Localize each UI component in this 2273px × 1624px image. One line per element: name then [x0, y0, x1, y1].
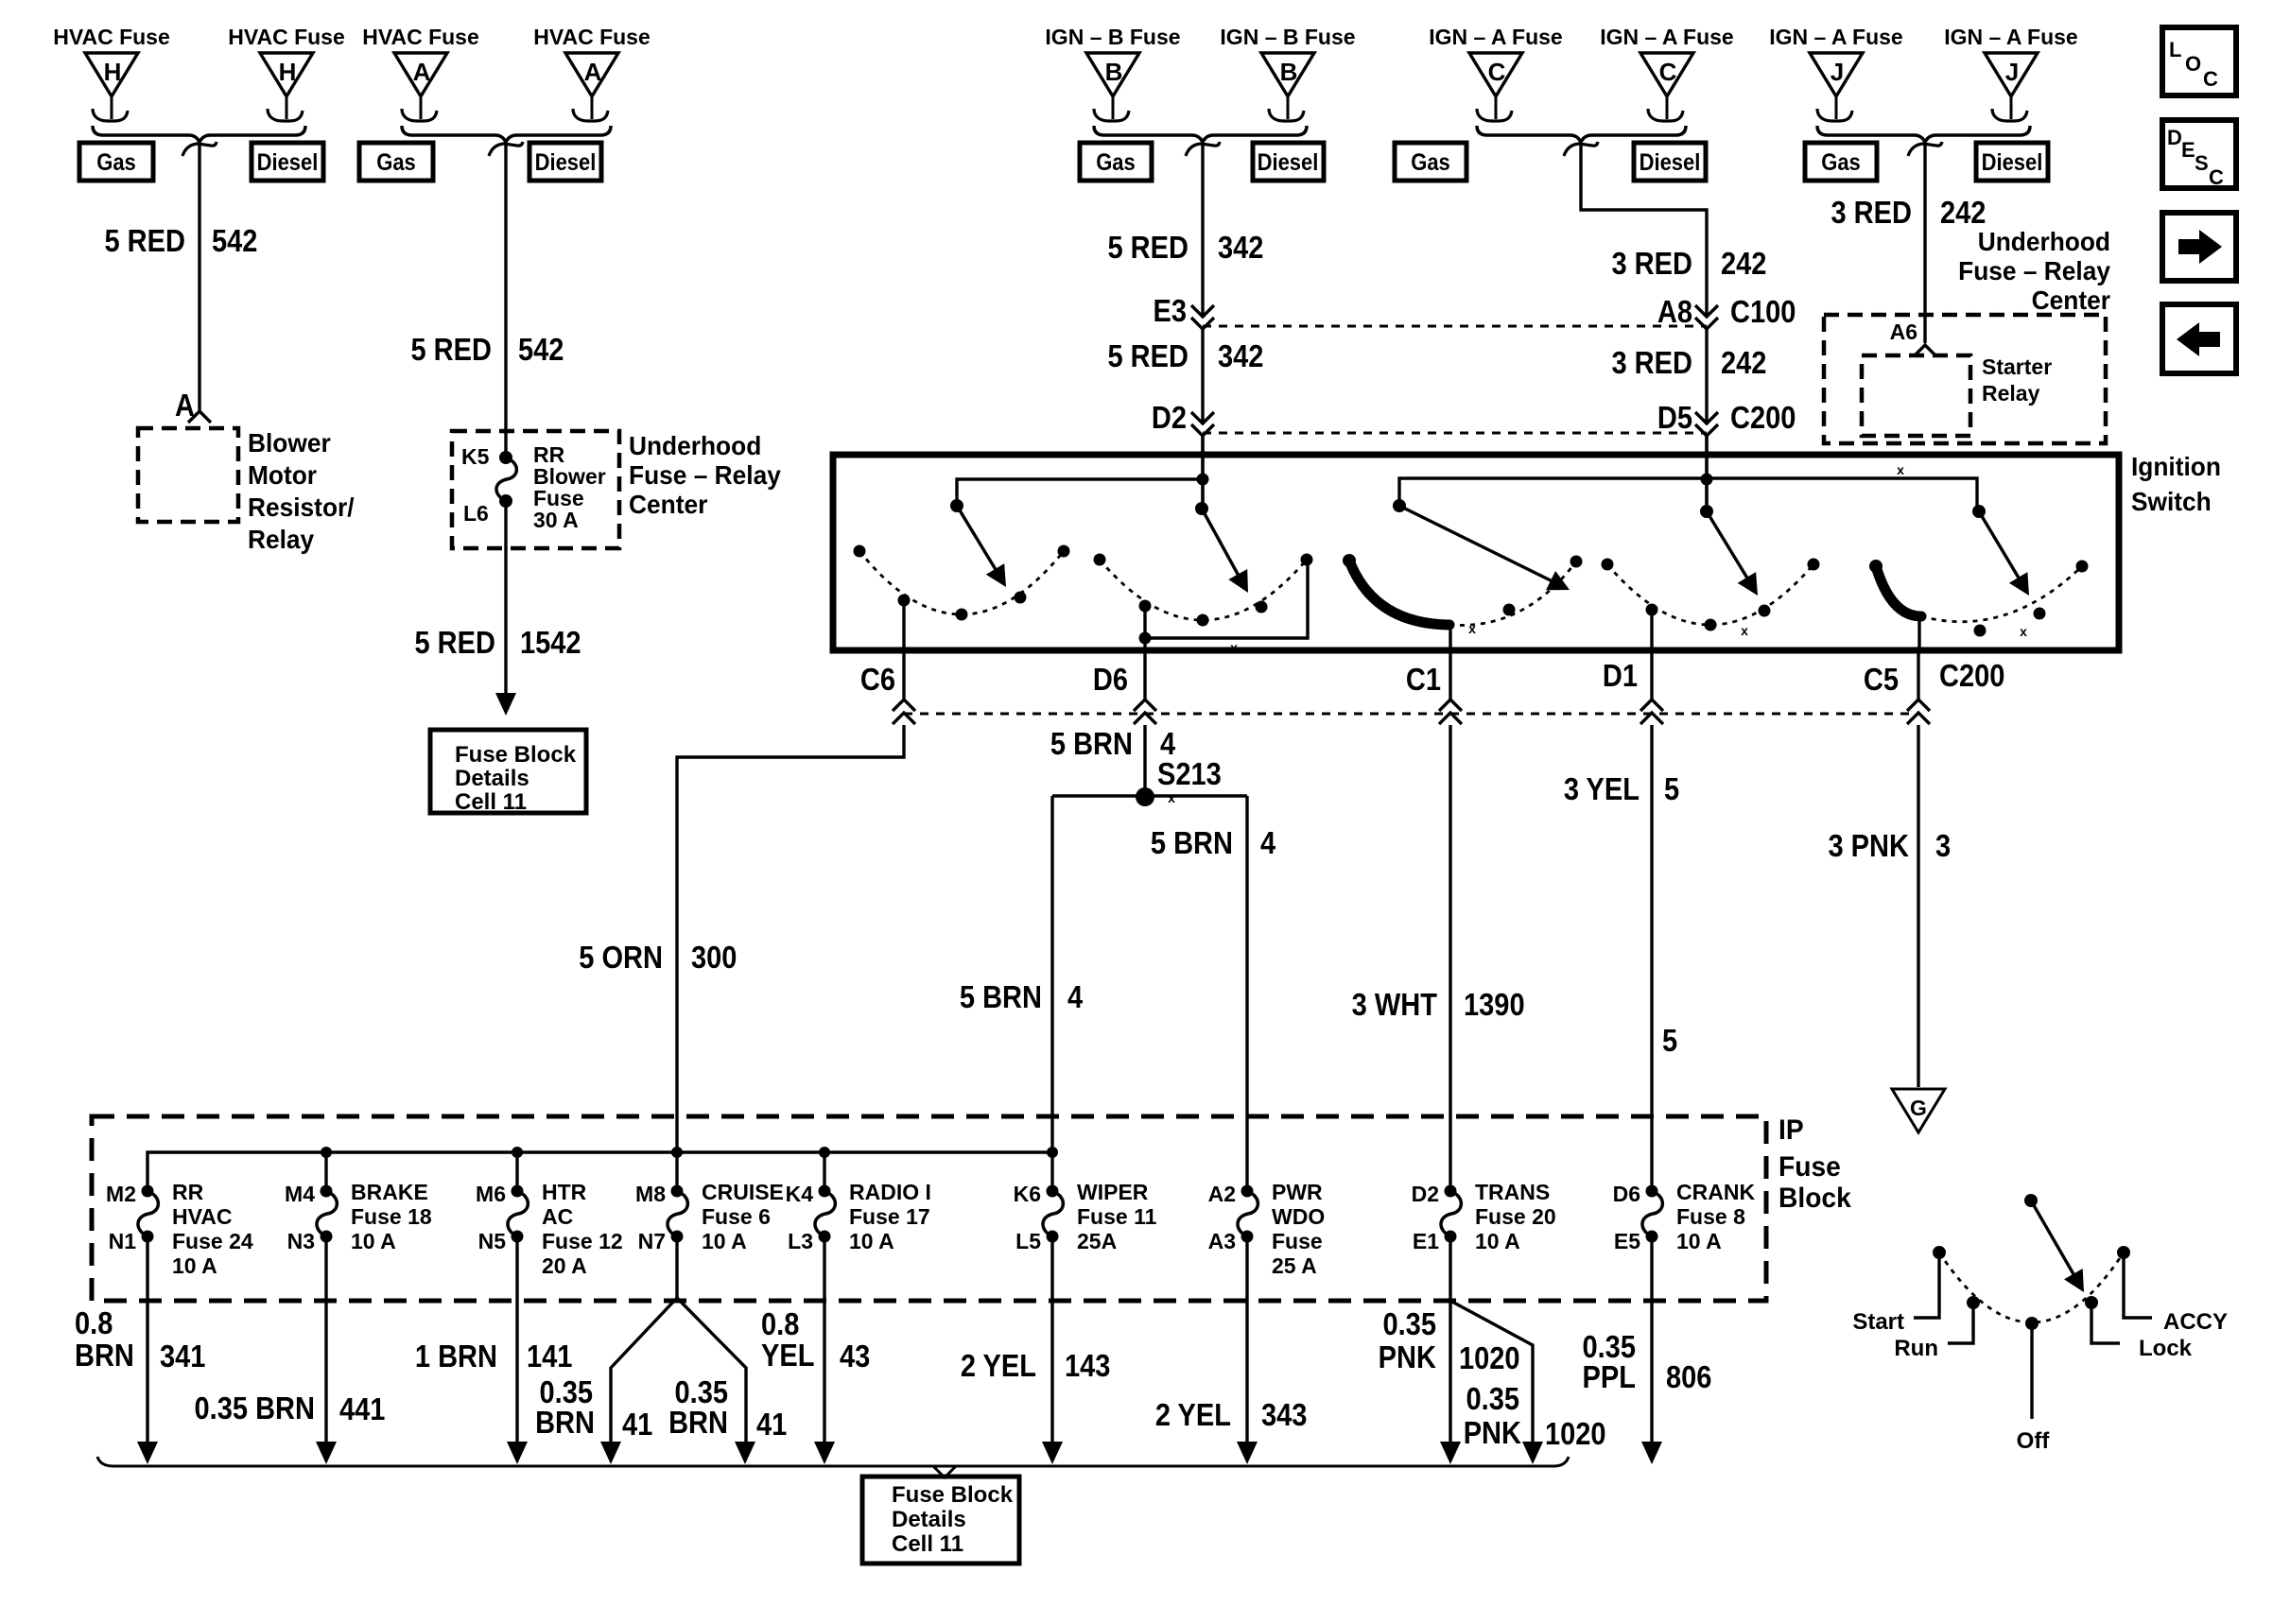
svg-text:A: A: [175, 388, 195, 423]
svg-text:Underhood: Underhood: [1978, 226, 2110, 256]
svg-text:IGN – A Fuse: IGN – A Fuse: [1600, 25, 1733, 49]
svg-text:B: B: [1280, 58, 1298, 86]
svg-text:HVAC Fuse: HVAC Fuse: [228, 25, 345, 49]
svg-text:Underhood: Underhood: [629, 430, 761, 460]
svg-text:CRANK: CRANK: [1676, 1180, 1755, 1204]
svg-text:L3: L3: [788, 1229, 813, 1253]
svg-text:L: L: [2169, 38, 2181, 61]
svg-text:Relay: Relay: [248, 524, 314, 554]
svg-text:0.35: 0.35: [1466, 1381, 1519, 1416]
svg-text:C: C: [2203, 67, 2218, 91]
svg-text:542: 542: [212, 223, 257, 258]
svg-text:242: 242: [1721, 246, 1766, 281]
svg-text:PNK: PNK: [1379, 1339, 1437, 1374]
svg-text:10 A: 10 A: [351, 1229, 396, 1253]
svg-text:RR: RR: [172, 1180, 204, 1204]
svg-text:C5: C5: [1864, 662, 1899, 697]
svg-text:x: x: [1468, 621, 1476, 636]
svg-text:N3: N3: [287, 1229, 315, 1253]
svg-text:C1: C1: [1406, 662, 1441, 697]
svg-text:Motor: Motor: [248, 459, 317, 490]
svg-text:Gas: Gas: [1096, 149, 1136, 176]
svg-text:CRUISE: CRUISE: [702, 1180, 784, 1204]
svg-text:C6: C6: [860, 662, 895, 697]
svg-text:Fuse Block: Fuse Block: [455, 742, 577, 768]
svg-text:C: C: [2209, 165, 2224, 189]
svg-text:Fuse 24: Fuse 24: [172, 1229, 253, 1253]
svg-text:K6: K6: [1014, 1182, 1041, 1206]
svg-text:20 A: 20 A: [542, 1253, 587, 1278]
svg-text:x: x: [1741, 623, 1748, 638]
svg-text:L5: L5: [1015, 1229, 1041, 1253]
svg-text:Run: Run: [1894, 1336, 1938, 1361]
svg-text:Starter: Starter: [1982, 354, 2052, 379]
svg-text:Block: Block: [1778, 1183, 1852, 1214]
svg-text:A: A: [413, 58, 431, 86]
svg-text:C: C: [1488, 58, 1506, 86]
svg-text:TRANS: TRANS: [1475, 1180, 1550, 1204]
svg-text:5 BRN: 5 BRN: [1151, 825, 1233, 860]
svg-text:D2: D2: [1152, 400, 1187, 435]
svg-text:AC: AC: [542, 1204, 573, 1229]
svg-text:10 A: 10 A: [1676, 1229, 1722, 1253]
svg-text:25A: 25A: [1077, 1229, 1117, 1253]
svg-text:0.35 BRN: 0.35 BRN: [195, 1391, 315, 1425]
svg-text:542: 542: [518, 332, 564, 367]
svg-text:C100: C100: [1730, 294, 1796, 329]
svg-text:Gas: Gas: [96, 149, 136, 176]
svg-text:J: J: [2005, 58, 2019, 86]
svg-text:x: x: [1897, 462, 1904, 477]
svg-text:E: E: [2181, 138, 2195, 162]
svg-text:0.35: 0.35: [1382, 1306, 1436, 1341]
svg-text:Resistor/: Resistor/: [248, 492, 355, 522]
svg-text:H: H: [104, 58, 122, 86]
svg-text:A3: A3: [1208, 1229, 1236, 1253]
svg-text:D6: D6: [1613, 1182, 1640, 1206]
svg-text:IGN – B Fuse: IGN – B Fuse: [1220, 25, 1355, 49]
svg-text:Lock: Lock: [2139, 1336, 2193, 1361]
svg-text:10 A: 10 A: [172, 1253, 217, 1278]
svg-text:25 A: 25 A: [1272, 1253, 1317, 1278]
svg-text:242: 242: [1721, 345, 1766, 380]
svg-text:D: D: [2167, 126, 2182, 149]
svg-text:A2: A2: [1208, 1182, 1236, 1206]
svg-text:4: 4: [1067, 979, 1084, 1014]
svg-text:Gas: Gas: [1411, 149, 1450, 176]
svg-text:HTR: HTR: [542, 1180, 587, 1204]
svg-text:Center: Center: [629, 489, 708, 519]
svg-text:Gas: Gas: [376, 149, 416, 176]
svg-text:x: x: [2020, 624, 2027, 639]
svg-text:41: 41: [756, 1407, 787, 1442]
svg-text:N1: N1: [109, 1229, 137, 1253]
svg-text:BRN: BRN: [75, 1338, 134, 1373]
svg-text:Fuse – Relay: Fuse – Relay: [1958, 255, 2110, 285]
svg-text:342: 342: [1218, 230, 1263, 265]
svg-text:5 RED: 5 RED: [1107, 338, 1189, 373]
svg-text:Fuse 17: Fuse 17: [849, 1204, 930, 1229]
svg-text:C: C: [1659, 58, 1677, 86]
svg-text:IGN – A Fuse: IGN – A Fuse: [1769, 25, 1902, 49]
svg-text:43: 43: [840, 1339, 870, 1373]
svg-text:1020: 1020: [1545, 1416, 1606, 1451]
svg-text:WIPER: WIPER: [1077, 1180, 1149, 1204]
svg-text:K5: K5: [461, 444, 490, 469]
svg-text:5 ORN: 5 ORN: [579, 940, 663, 975]
svg-text:Switch: Switch: [2131, 486, 2212, 516]
svg-text:5 RED: 5 RED: [410, 332, 492, 367]
svg-text:5 RED: 5 RED: [104, 223, 185, 258]
svg-text:M4: M4: [285, 1182, 315, 1206]
svg-text:PPL: PPL: [1583, 1359, 1636, 1394]
svg-text:0.8: 0.8: [761, 1306, 799, 1341]
svg-text:x: x: [1230, 640, 1238, 655]
svg-text:3 RED: 3 RED: [1611, 345, 1692, 380]
svg-text:S: S: [2195, 151, 2209, 175]
svg-text:5 RED: 5 RED: [414, 625, 495, 660]
svg-text:Diesel: Diesel: [257, 149, 319, 176]
svg-text:E5: E5: [1614, 1229, 1640, 1253]
svg-text:0.8: 0.8: [75, 1305, 113, 1340]
svg-text:242: 242: [1940, 195, 1986, 230]
svg-text:E1: E1: [1413, 1229, 1439, 1253]
svg-text:1390: 1390: [1464, 987, 1525, 1022]
svg-text:E3: E3: [1153, 293, 1187, 328]
svg-text:K4: K4: [786, 1182, 814, 1206]
svg-text:Fuse: Fuse: [1778, 1151, 1841, 1183]
svg-text:HVAC Fuse: HVAC Fuse: [533, 25, 651, 49]
svg-text:Fuse 8: Fuse 8: [1676, 1204, 1745, 1229]
svg-text:Fuse 20: Fuse 20: [1475, 1204, 1556, 1229]
svg-text:4: 4: [1260, 825, 1276, 860]
svg-text:HVAC Fuse: HVAC Fuse: [362, 25, 479, 49]
svg-text:J: J: [1831, 58, 1844, 86]
svg-text:H: H: [279, 58, 297, 86]
svg-text:3: 3: [1935, 828, 1951, 863]
svg-text:N7: N7: [638, 1229, 666, 1253]
svg-text:D5: D5: [1657, 400, 1692, 435]
svg-text:1020: 1020: [1459, 1340, 1520, 1375]
svg-text:B: B: [1105, 58, 1123, 86]
svg-text:3 YEL: 3 YEL: [1564, 771, 1640, 806]
svg-text:BRN: BRN: [668, 1405, 728, 1440]
svg-text:3 PNK: 3 PNK: [1828, 828, 1909, 863]
svg-text:143: 143: [1065, 1348, 1110, 1383]
svg-text:M8: M8: [635, 1182, 666, 1206]
svg-text:S213: S213: [1157, 756, 1222, 791]
svg-text:BRN: BRN: [535, 1405, 595, 1440]
svg-text:141: 141: [527, 1339, 572, 1373]
svg-text:300: 300: [691, 940, 737, 975]
svg-text:Fuse: Fuse: [1272, 1229, 1323, 1253]
svg-text:10 A: 10 A: [702, 1229, 747, 1253]
svg-text:BRAKE: BRAKE: [351, 1180, 428, 1204]
svg-text:ACCY: ACCY: [2163, 1309, 2228, 1335]
svg-text:5: 5: [1662, 1023, 1677, 1058]
svg-text:PNK: PNK: [1464, 1415, 1522, 1450]
svg-text:1542: 1542: [520, 625, 581, 660]
svg-text:WDO: WDO: [1272, 1204, 1325, 1229]
svg-text:441: 441: [339, 1391, 385, 1426]
svg-text:Cell 11: Cell 11: [892, 1531, 963, 1557]
svg-text:N5: N5: [478, 1229, 507, 1253]
svg-text:Gas: Gas: [1821, 149, 1861, 176]
svg-text:Details: Details: [892, 1507, 966, 1532]
svg-text:Cell 11: Cell 11: [455, 789, 527, 815]
svg-text:A8: A8: [1657, 294, 1692, 329]
svg-text:L6: L6: [463, 501, 489, 526]
svg-text:5 RED: 5 RED: [1107, 230, 1189, 265]
svg-text:HVAC Fuse: HVAC Fuse: [53, 25, 170, 49]
svg-text:2 YEL: 2 YEL: [961, 1348, 1036, 1383]
svg-text:Fuse 11: Fuse 11: [1077, 1204, 1157, 1229]
svg-text:Fuse 18: Fuse 18: [351, 1204, 432, 1229]
svg-text:5 BRN: 5 BRN: [960, 979, 1042, 1014]
svg-text:M2: M2: [106, 1182, 136, 1206]
svg-text:30 A: 30 A: [533, 508, 579, 532]
svg-text:Diesel: Diesel: [1258, 149, 1319, 176]
svg-text:Center: Center: [2032, 285, 2111, 315]
svg-text:C200: C200: [1939, 658, 2004, 693]
svg-text:D1: D1: [1603, 658, 1638, 693]
svg-text:342: 342: [1218, 338, 1263, 373]
svg-text:IGN – A Fuse: IGN – A Fuse: [1944, 25, 2077, 49]
svg-text:2 YEL: 2 YEL: [1155, 1397, 1231, 1432]
svg-text:D6: D6: [1093, 662, 1128, 697]
svg-text:IGN – A Fuse: IGN – A Fuse: [1429, 25, 1562, 49]
svg-text:G: G: [1910, 1096, 1927, 1120]
svg-text:YEL: YEL: [761, 1338, 814, 1373]
svg-text:A: A: [584, 58, 602, 86]
svg-text:Diesel: Diesel: [1640, 149, 1701, 176]
svg-text:Fuse 6: Fuse 6: [702, 1204, 771, 1229]
svg-text:Off: Off: [2017, 1428, 2051, 1454]
svg-text:Details: Details: [455, 766, 529, 791]
svg-text:3 RED: 3 RED: [1611, 246, 1692, 281]
svg-text:Relay: Relay: [1982, 381, 2040, 406]
svg-text:1 BRN: 1 BRN: [415, 1339, 497, 1373]
svg-text:RADIO I: RADIO I: [849, 1180, 931, 1204]
svg-text:IGN – B Fuse: IGN – B Fuse: [1045, 25, 1180, 49]
svg-text:3 RED: 3 RED: [1831, 195, 1912, 230]
svg-text:Fuse 12: Fuse 12: [542, 1229, 623, 1253]
svg-text:PWR: PWR: [1272, 1180, 1323, 1204]
svg-text:806: 806: [1666, 1359, 1711, 1394]
svg-text:10 A: 10 A: [1475, 1229, 1520, 1253]
svg-text:O: O: [2185, 52, 2201, 76]
svg-text:5 BRN: 5 BRN: [1050, 726, 1133, 761]
svg-text:10 A: 10 A: [849, 1229, 894, 1253]
svg-text:IP: IP: [1778, 1114, 1804, 1146]
svg-text:Diesel: Diesel: [1982, 149, 2043, 176]
svg-text:Diesel: Diesel: [535, 149, 597, 176]
svg-text:D2: D2: [1412, 1182, 1439, 1206]
svg-text:Fuse Block: Fuse Block: [892, 1482, 1014, 1508]
svg-text:41: 41: [622, 1407, 652, 1442]
svg-text:Fuse – Relay: Fuse – Relay: [629, 459, 781, 490]
svg-text:C200: C200: [1730, 400, 1796, 435]
svg-text:341: 341: [160, 1339, 205, 1373]
svg-text:Blower: Blower: [248, 427, 331, 458]
svg-text:343: 343: [1261, 1397, 1307, 1432]
svg-text:Start: Start: [1852, 1309, 1904, 1335]
svg-text:Ignition: Ignition: [2131, 451, 2221, 481]
svg-text:5: 5: [1664, 771, 1679, 806]
svg-text:HVAC: HVAC: [172, 1204, 232, 1229]
svg-text:x: x: [1168, 790, 1175, 805]
svg-text:3 WHT: 3 WHT: [1352, 987, 1437, 1022]
svg-text:M6: M6: [476, 1182, 506, 1206]
svg-text:A6: A6: [1890, 320, 1917, 344]
